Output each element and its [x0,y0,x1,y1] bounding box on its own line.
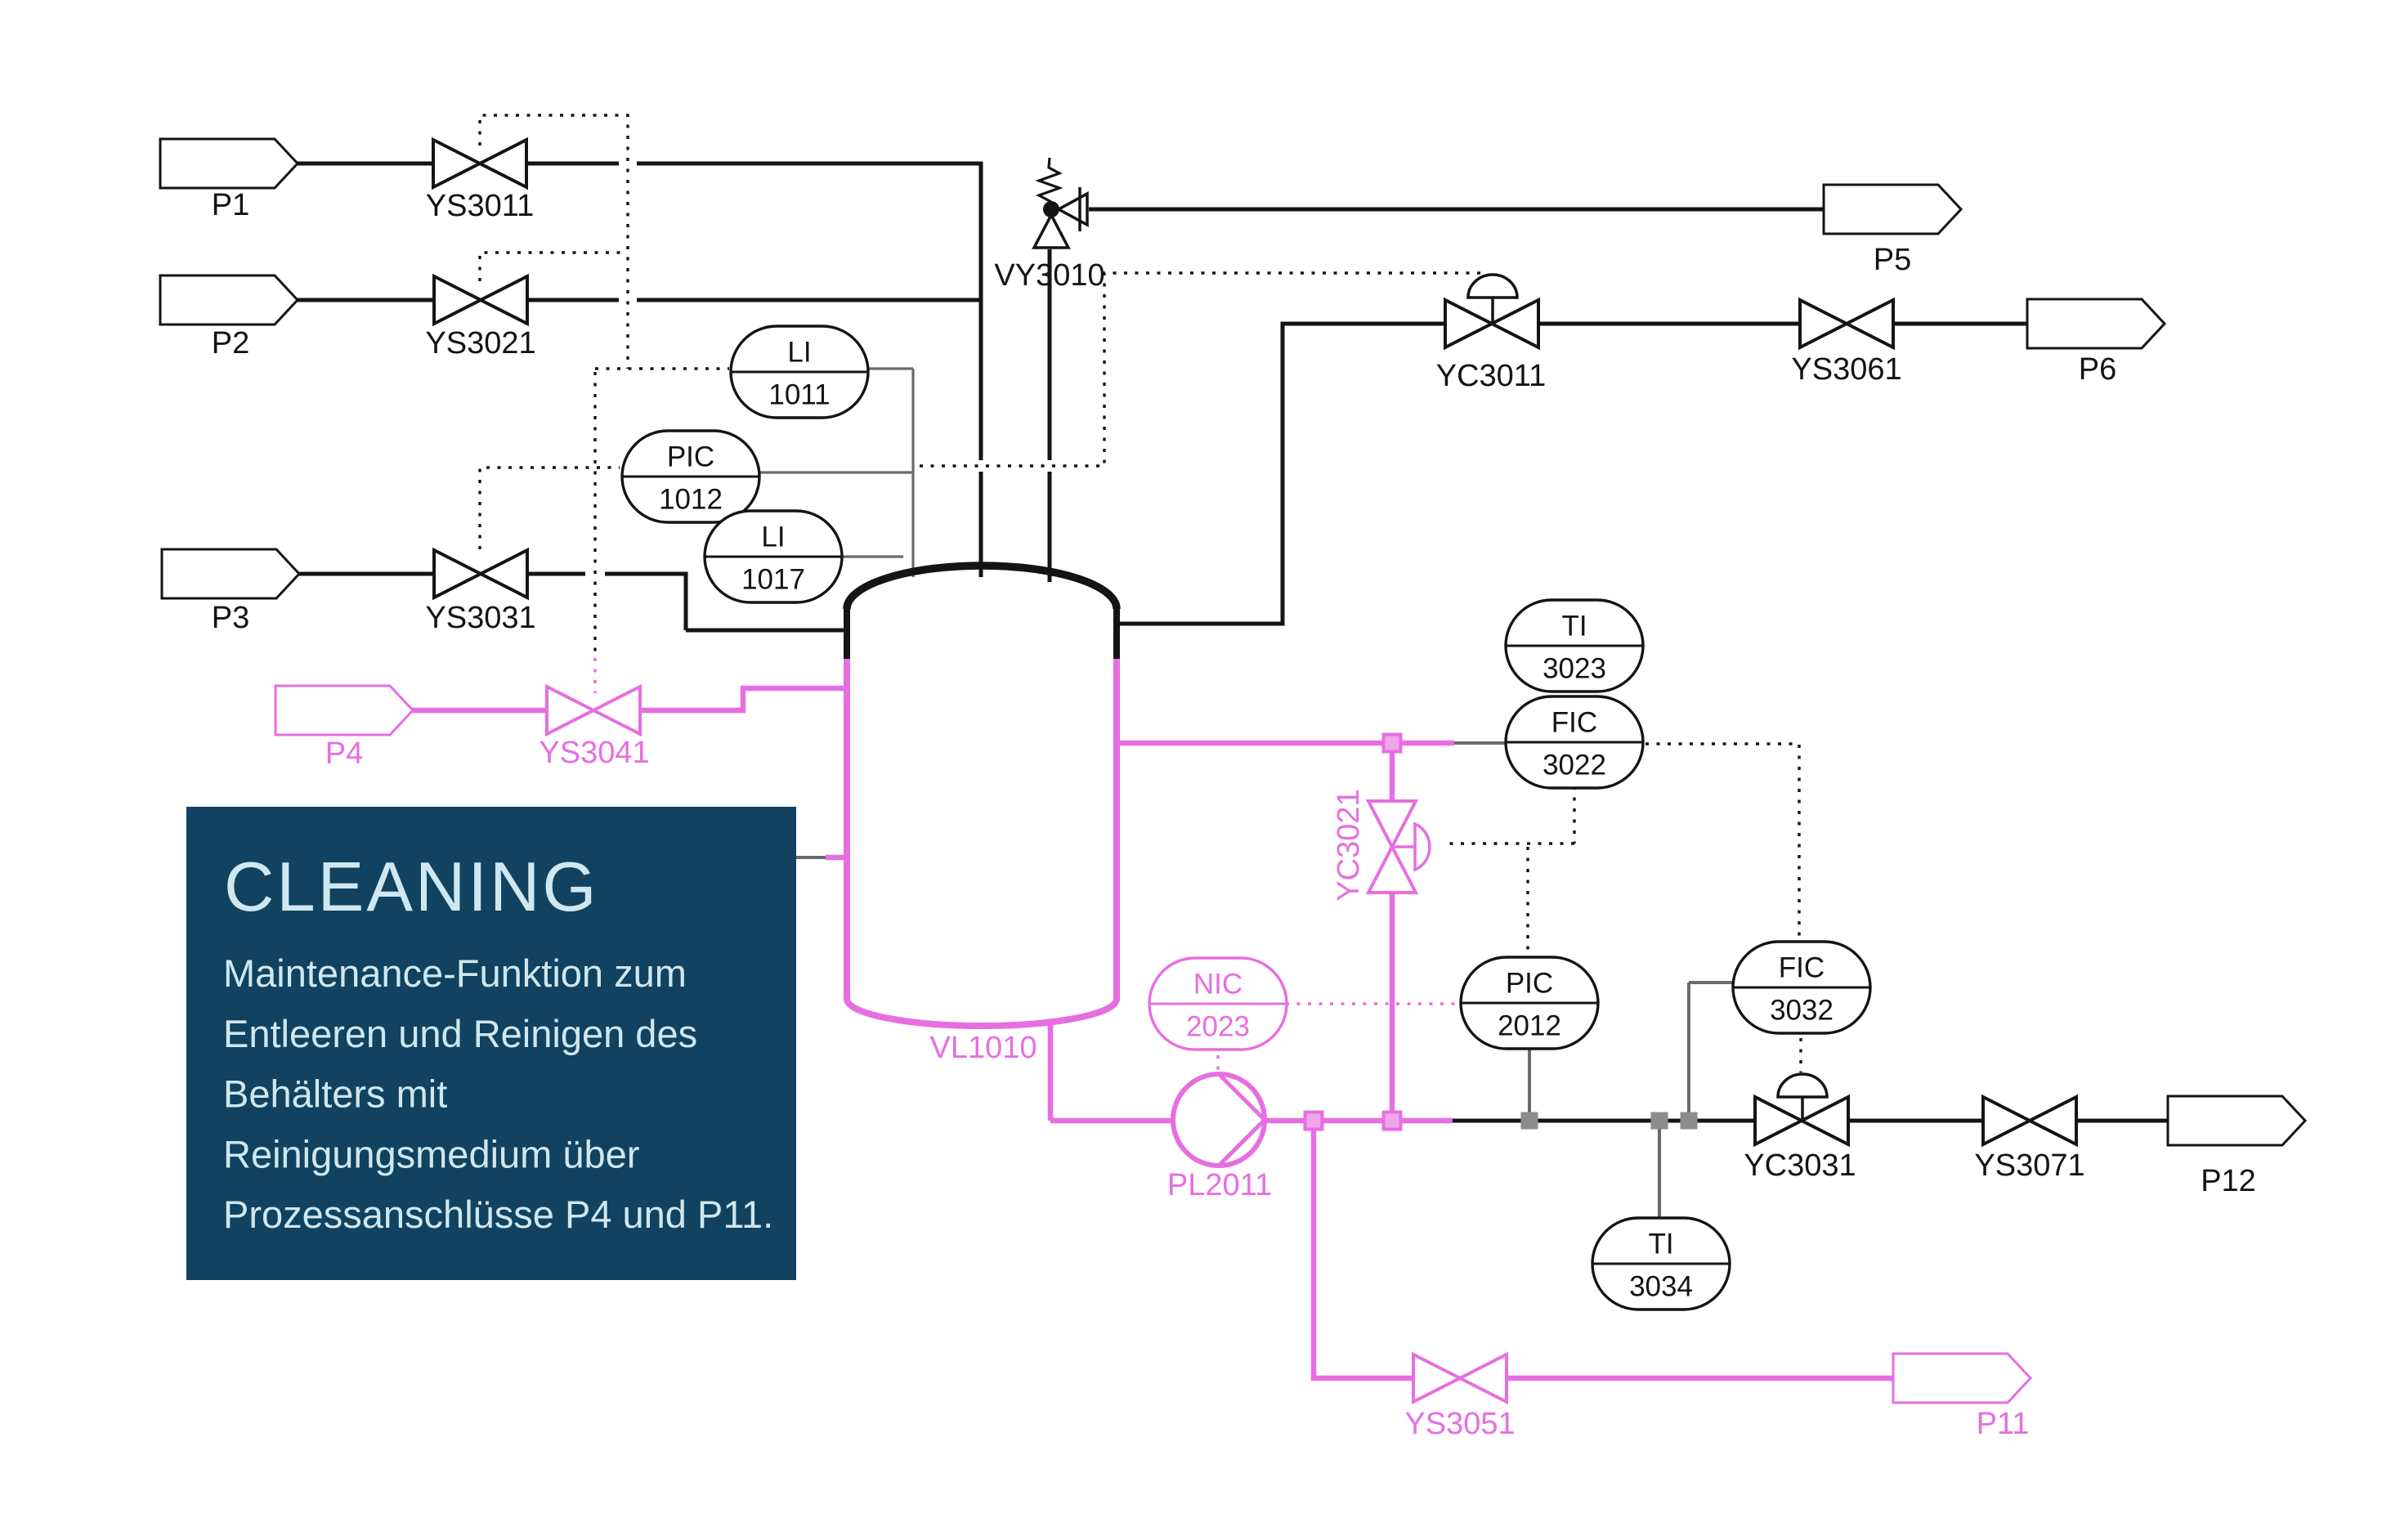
connector P1 [160,139,298,188]
connector P5 [1824,185,1961,234]
svg-text:3023: 3023 [1543,653,1606,685]
vessel VL1010 bottom dome [847,999,1117,1026]
wire P1 header down to vessel upper seg [979,162,983,461]
svg-text:YC3011: YC3011 [1436,359,1547,393]
svg-text:LI: LI [761,522,785,553]
relief valve VY3010 spring [1039,158,1059,202]
instrument FIC 3032 [1733,942,1870,1033]
svg-text:P12: P12 [2201,1164,2256,1198]
signal dotted down to PIC2012 [1526,847,1529,955]
svg-text:Maintenance-Funktion zum: Maintenance-Funktion zum [223,951,687,995]
svg-text:P2: P2 [212,326,249,360]
vessel VL1010 left wall magenta [844,659,850,1001]
wire TI3034 gray vertical [1658,1126,1661,1222]
wire YS3071 to P12 [2075,1119,2169,1123]
svg-text:1017: 1017 [741,564,805,596]
wire vessel drain down [1048,1020,1054,1121]
wire LI1011 signal right [868,367,913,369]
svg-text:FIC: FIC [1779,952,1825,984]
valve YS3031 [434,550,527,598]
signal dotted YS3021 up [480,253,628,281]
svg-text:3034: 3034 [1629,1271,1693,1303]
svg-text:PIC: PIC [667,441,714,473]
svg-text:P4: P4 [325,736,363,771]
wire pump to junction line [1264,1118,1453,1124]
vessel VL1010 right wall magenta [1113,659,1120,1001]
wire FIC3032 gray vertical [1687,983,1690,1115]
valve YS3041 [547,687,640,734]
signal dotted NIC2023 to pump [1216,1055,1219,1072]
wire YC3011 riser [1281,322,1285,625]
valve YS3051 [1413,1354,1507,1402]
svg-text:LI: LI [787,337,811,369]
connector P3 [162,549,299,598]
wire P4 jog up [741,686,746,713]
svg-text:YS3041: YS3041 [539,736,649,770]
signal dotted YS3011 up [480,115,628,369]
wire LI1011 signal down [911,369,914,472]
valve YS3011 [433,140,526,187]
svg-text:P5: P5 [1874,243,1911,277]
svg-text:YS3051: YS3051 [1404,1407,1515,1441]
signal dotted to YC3021 actuator [1448,842,1574,844]
signal dotted YS3031 up to PIC1012 [480,468,620,549]
svg-text:Prozessanschlüsse P4 und P11.: Prozessanschlüsse P4 und P11. [223,1193,773,1236]
wire P2 line segment a [298,298,619,302]
node junction magenta at FIC3022 line [1384,735,1401,752]
wire YC3021 riser bottom [1390,890,1395,1121]
control valve YC3031 [1755,1097,1848,1144]
wire FIC3022 lead-in gray [1454,741,1507,745]
instrument LI 1011 [731,326,868,418]
wire YS3041 to jog [640,708,746,714]
vessel VL1010 right wall black [1113,606,1120,660]
connector P12 [2168,1096,2305,1145]
instrument PIC 2012 [1461,957,1598,1049]
valve YS3021 [434,276,527,324]
wire cleaning stub magenta [826,855,847,861]
wire P3 into vessel [686,629,847,633]
svg-text:2012: 2012 [1498,1010,1561,1042]
instrument NIC 2023 [1149,958,1287,1050]
svg-text:Reinigungsmedium über: Reinigungsmedium über [223,1132,639,1175]
wire PIC1012 signal right [759,471,913,473]
wire bottom main black line [1453,1119,1755,1123]
svg-text:P6: P6 [2079,352,2116,387]
connector P2 [160,275,298,325]
signal dotted down to YS3041 black part [593,372,596,654]
svg-text:P3: P3 [212,601,249,635]
valve YS3071 [1983,1097,2076,1144]
svg-text:1011: 1011 [768,379,830,411]
wire YC3011 to YS3061 [1538,322,1800,326]
wire P3 line segment a [299,572,585,576]
instrument FIC 3022 [1506,696,1643,788]
valve YS3061 [1800,300,1893,347]
relief valve VY3010 flange bar [1078,187,1081,231]
cleaning info box [186,807,796,1280]
wire P1 line segment b [637,162,983,166]
connector P6 [2027,299,2165,348]
wire P4 into vessel [741,686,847,692]
wire P1 line segment a [298,162,619,166]
wire YS3051 to P11 [1507,1376,1895,1381]
wire LI1017 signal right [843,555,903,557]
svg-text:CLEANING: CLEANING [224,848,599,926]
signal dotted down to YS3041 magenta part [593,658,596,693]
wire branch down to YS3051 [1311,1121,1317,1381]
wire YC3011 line left [1281,322,1446,326]
signal dotted PIC1012 to YC3011 [920,273,1484,466]
wire P2 line segment b [637,298,979,302]
svg-text:TI: TI [1648,1229,1673,1260]
svg-text:FIC: FIC [1551,707,1597,739]
vessel VL1010 left wall black [844,606,850,660]
svg-text:TI: TI [1561,611,1587,642]
svg-text:2023: 2023 [1186,1011,1250,1043]
wire P4 to YS3041 [412,708,547,714]
wire PIC2012 down to line [1528,1050,1531,1115]
wire YC3021 riser top [1390,743,1395,803]
wire P3 drop [684,574,688,630]
wire instrument signal to vessel top [911,472,914,577]
svg-text:NIC: NIC [1193,969,1243,1001]
signal dotted FIC3022 down [1573,786,1575,844]
wire VY3010 riser lower seg [1048,472,1052,582]
svg-text:VY3010: VY3010 [994,258,1104,293]
relief valve VY3010 right triangle [1059,194,1087,225]
control valve YC3021 [1368,801,1416,893]
svg-text:PL2011: PL2011 [1167,1168,1272,1202]
signal dotted NIC2023 to PIC2012 [1286,1002,1460,1005]
control valve YC3011 [1445,300,1538,347]
svg-text:3032: 3032 [1770,995,1834,1027]
vessel VL1010 top dome [847,566,1117,609]
instrument TI 3023 [1506,600,1643,692]
svg-text:YC3021: YC3021 [1332,789,1366,901]
svg-text:1012: 1012 [659,484,723,516]
node junction gray FIC3032 [1681,1112,1698,1130]
wire P1 header down to vessel lower seg [979,472,983,577]
svg-text:P1: P1 [212,188,249,222]
svg-text:YC3031: YC3031 [1744,1148,1856,1183]
connector P4 [275,686,413,735]
wire FIC3032 gray horizontal [1689,981,1733,984]
instrument LI 1017 [705,511,842,602]
wire VY3010 riser upper seg [1048,249,1052,460]
wire YC3031 to YS3071 [1847,1119,1983,1123]
svg-text:3022: 3022 [1543,750,1606,781]
node junction gray TI3034 [1651,1112,1668,1130]
svg-text:YS3021: YS3021 [425,326,535,360]
svg-text:PIC: PIC [1506,968,1553,1000]
wire vessel to FIC3022 line magenta part [1117,741,1454,746]
relief valve VY3010 down triangle [1034,215,1068,248]
wire YS3061 to P6 [1892,322,2029,326]
instrument TI 3034 [1592,1218,1730,1309]
node junction magenta YC3021 bottom [1384,1112,1401,1130]
svg-text:Entleeren und Reinigen des: Entleeren und Reinigen des [223,1012,697,1055]
wire cleaning stub gray [796,856,826,859]
wire branch to YS3051 [1311,1376,1414,1381]
svg-text:YS3071: YS3071 [1974,1148,2084,1183]
pump PL2011 [1173,1074,1265,1166]
signal dotted to LI1011 [595,367,729,369]
connector P11 [1893,1354,2031,1403]
svg-text:VL1010: VL1010 [929,1031,1037,1065]
wire vessel to YC3011 horizontal [1117,622,1285,626]
svg-text:YS3011: YS3011 [426,189,534,223]
relief valve VY3010 body circle [1043,201,1059,217]
wire P5 line [1089,208,1825,212]
node junction gray PIC2012 [1521,1112,1538,1130]
signal dotted FIC3032 to YC3031 actuator [1799,1038,1802,1072]
signal dotted FIC3022 to FIC3032 [1645,744,1799,937]
svg-text:YS3031: YS3031 [425,601,535,635]
wire drain to pump PL2011 [1050,1118,1175,1124]
node junction magenta pump discharge [1305,1112,1323,1130]
svg-text:P11: P11 [1977,1407,2030,1441]
wire P3 line segment b [605,572,688,576]
svg-text:Behälters mit: Behälters mit [223,1072,447,1116]
instrument PIC 1012 [622,431,759,522]
svg-text:YS3061: YS3061 [1791,352,1901,387]
